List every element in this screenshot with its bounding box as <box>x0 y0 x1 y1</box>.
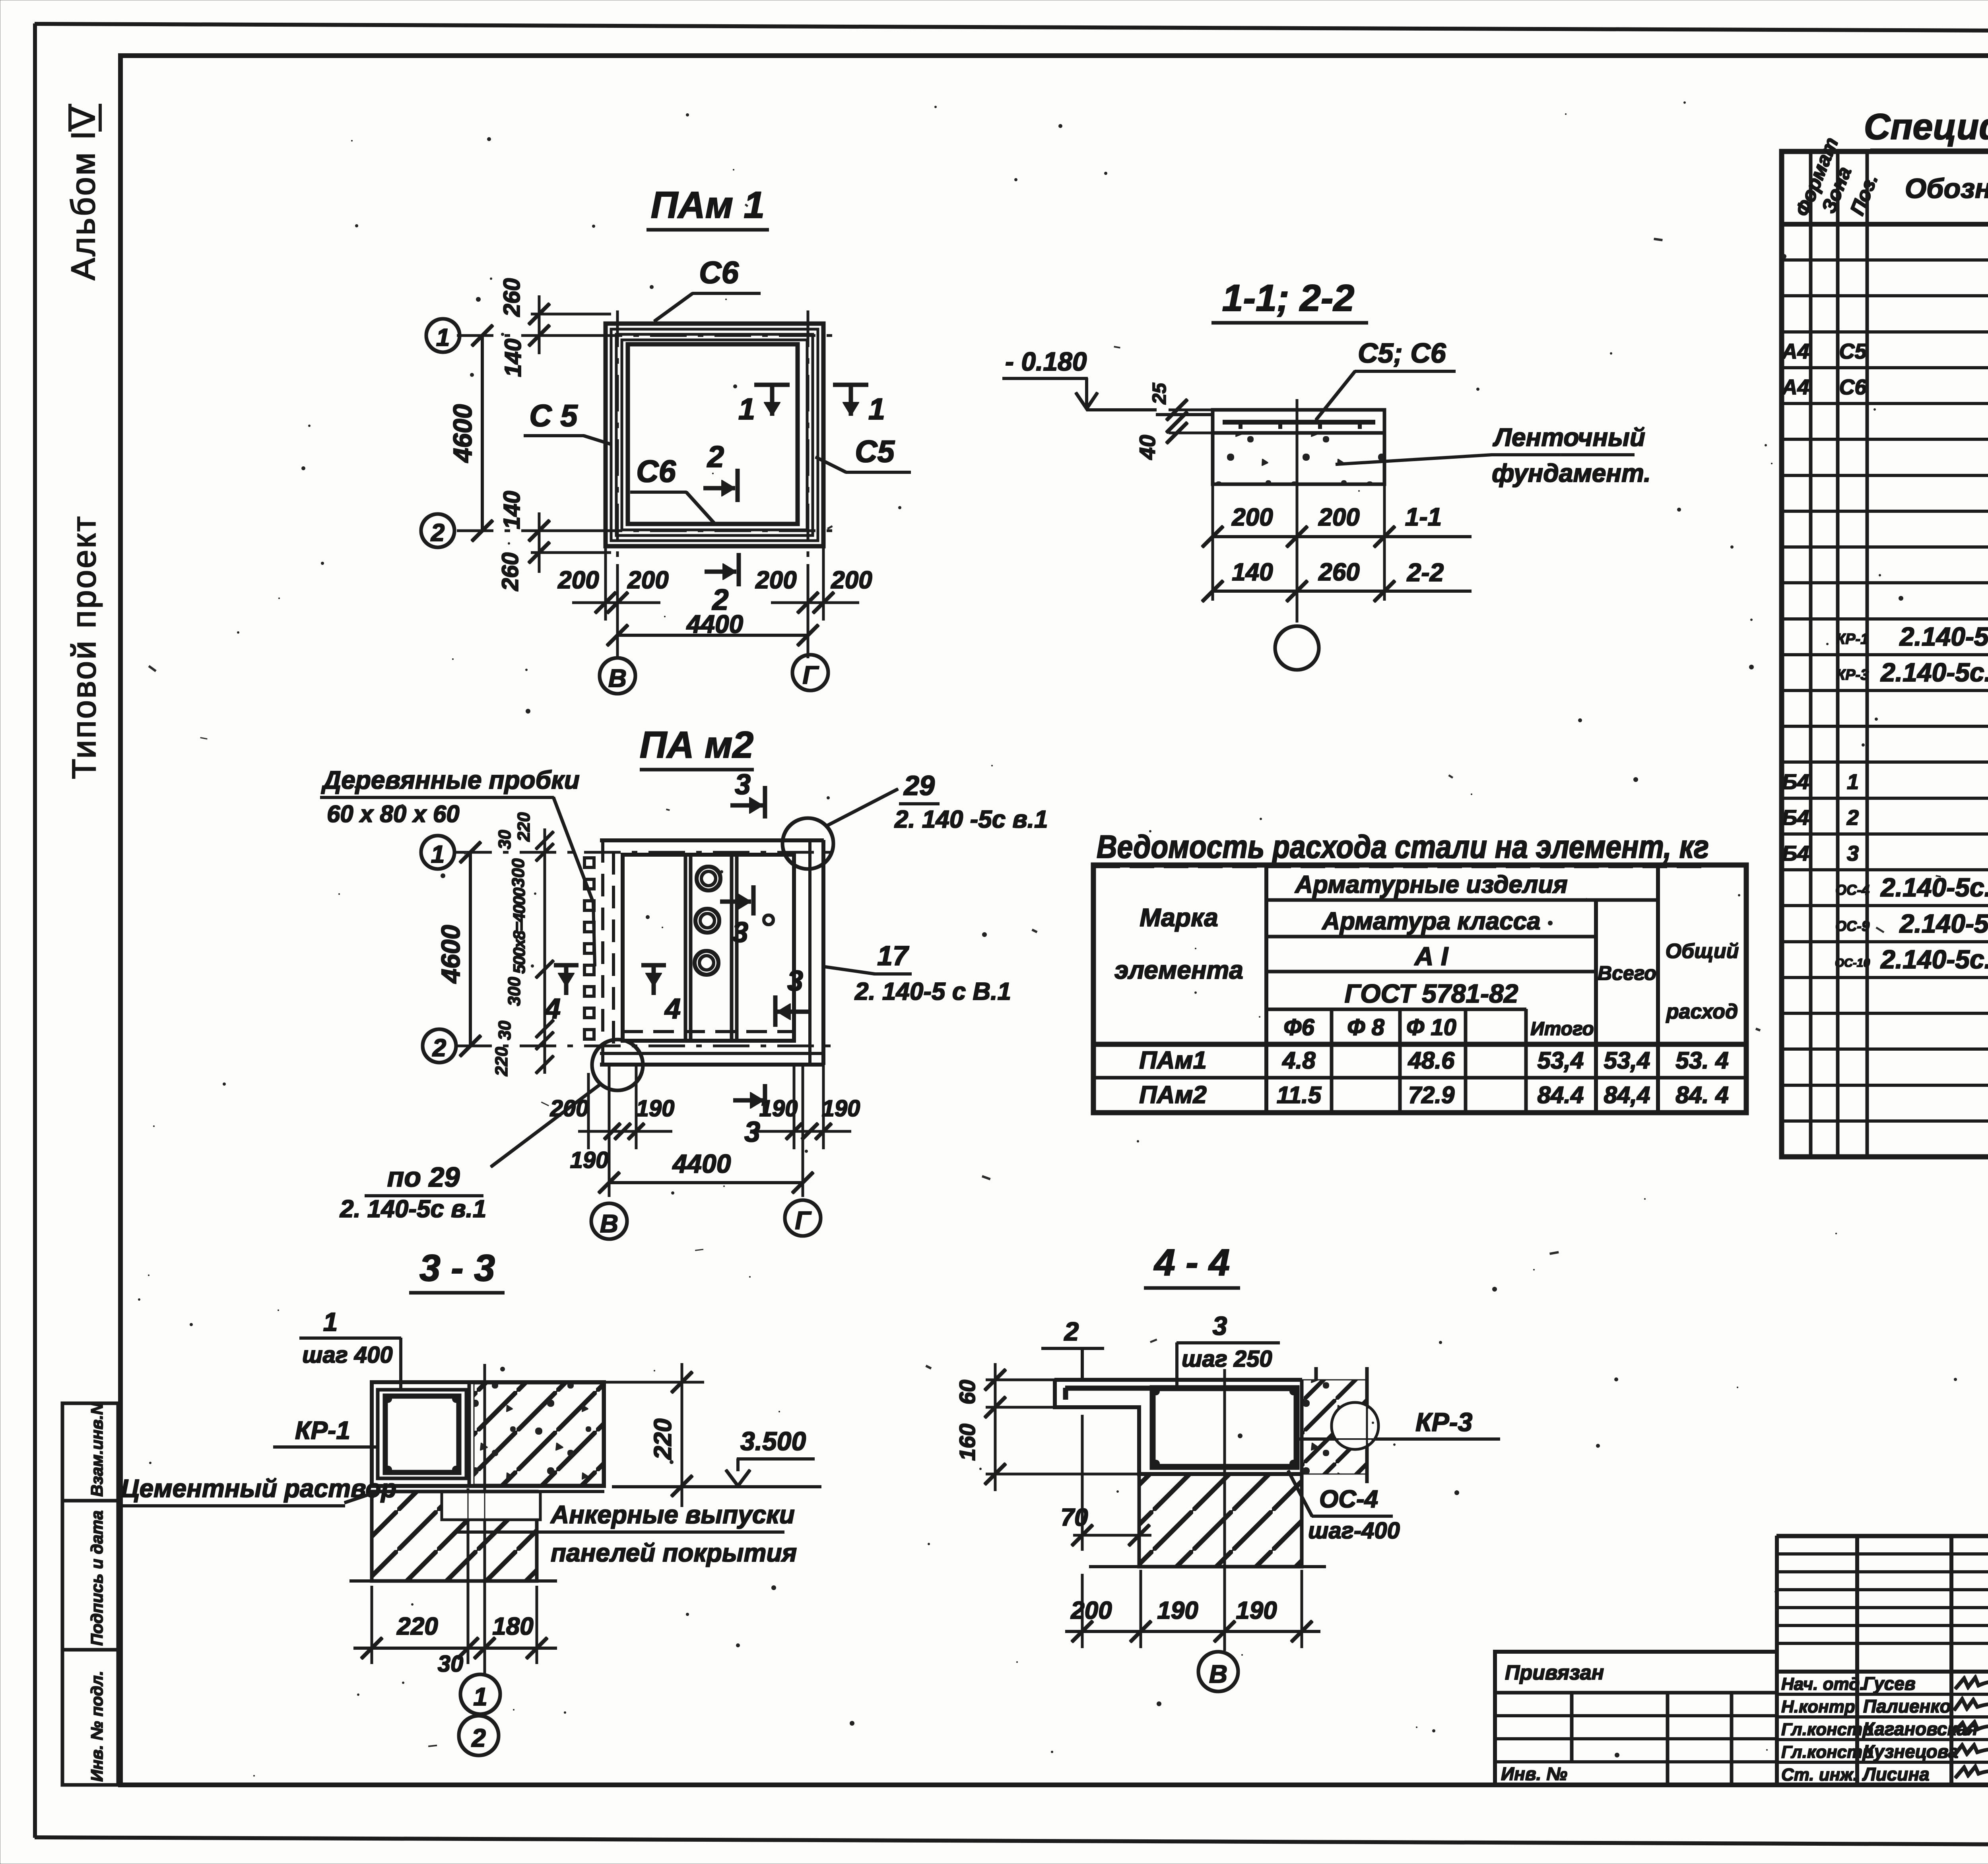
bottom-left stamp cells <box>62 1402 118 1785</box>
label C5 right with leader <box>816 434 911 472</box>
svg-text:расход: расход <box>1666 1000 1738 1023</box>
section mark 3 inner <box>720 886 753 948</box>
svg-text:Деревянные пробки: Деревянные пробки <box>321 766 580 794</box>
svg-text:Арматурные изделия: Арматурные изделия <box>1294 871 1567 898</box>
label C6 top with leader <box>654 255 760 321</box>
plan PAm2 axis lines <box>456 852 835 1046</box>
dims 200 200 bottom-right <box>755 546 872 658</box>
svg-text:11.5: 11.5 <box>1277 1082 1322 1108</box>
svg-text:Г: Г <box>802 661 819 689</box>
svg-text:300: 300 <box>509 858 528 888</box>
axis circle 1 <box>426 319 460 352</box>
svg-text:2. 140-5с в.1: 2. 140-5с в.1 <box>340 1195 486 1223</box>
svg-text:Спецификация к ПАм1 и ПАм2: Спецификация к ПАм1 и ПАм2 <box>1864 107 1988 147</box>
specification table header <box>1791 134 1988 219</box>
section 3-3 bottom dims <box>354 1489 557 1677</box>
svg-text:С5; С6: С5; С6 <box>1358 337 1446 369</box>
vertical label Album IV <box>64 104 102 280</box>
svg-text:В: В <box>600 1209 618 1238</box>
left dims 60 160 section 4-4 <box>955 1364 1139 1491</box>
svg-text:ПА м2: ПА м2 <box>640 724 753 766</box>
section mark 3 lower <box>775 965 808 1026</box>
label C5 left with leader <box>524 398 612 444</box>
axis circle 1 PAm2 <box>421 836 454 869</box>
svg-text:53. 4: 53. 4 <box>1675 1047 1728 1074</box>
svg-text:190: 190 <box>1236 1597 1277 1624</box>
svg-text:ОС-9: ОС-9 <box>1835 918 1870 934</box>
svg-text:Арматура класса: Арматура класса <box>1321 908 1540 935</box>
svg-text:1: 1 <box>1847 770 1859 794</box>
svg-text:140: 140 <box>500 339 526 377</box>
svg-text:Ф6: Ф6 <box>1283 1014 1314 1040</box>
svg-text:84.4: 84.4 <box>1538 1082 1584 1108</box>
svg-text:60 x 80 x 60: 60 x 80 x 60 <box>327 801 460 827</box>
svg-text:шаг 400: шаг 400 <box>302 1342 393 1368</box>
label C6 bottom with leader <box>631 454 716 525</box>
label 2 leader <box>1042 1317 1104 1379</box>
svg-text:140: 140 <box>1232 559 1273 586</box>
section mark 3 bottom <box>734 1084 765 1148</box>
svg-text:панелей покрытия: панелей покрытия <box>551 1538 797 1567</box>
svg-text:3: 3 <box>732 917 748 948</box>
vedomost table title <box>1096 829 1710 867</box>
PAm2 bottom dims right <box>757 1065 860 1149</box>
svg-text:30: 30 <box>495 1020 514 1040</box>
svg-text:4 - 4: 4 - 4 <box>1153 1241 1230 1284</box>
svg-text:2.140-5с.1-0050-01: 2.140-5с.1-0050-01 <box>1880 945 1988 974</box>
svg-text:220: 220 <box>514 812 534 842</box>
vertical label Tipovoy proekt <box>65 515 103 779</box>
svg-text:3: 3 <box>787 965 803 997</box>
svg-text:2: 2 <box>1064 1317 1079 1346</box>
svg-text:КР-3: КР-3 <box>1415 1407 1472 1437</box>
svg-text:КР-3: КР-3 <box>1836 667 1869 683</box>
level mark -0.180 <box>1003 347 1213 415</box>
axis circle V <box>600 658 635 694</box>
svg-text:220: 220 <box>492 1047 511 1077</box>
svg-text:53,4: 53,4 <box>1604 1047 1650 1074</box>
svg-text:Кузнецова: Кузнецова <box>1863 1741 1958 1762</box>
svg-text:200: 200 <box>557 566 599 594</box>
wall below section 4-4 <box>1089 1474 1326 1567</box>
plan PAm2 holes <box>695 867 773 975</box>
PAm2 bottom dims left <box>550 1065 675 1149</box>
leader po 29 bottom-left circle <box>340 1040 643 1223</box>
dim 4400 bottom <box>607 610 818 646</box>
svg-text:Всего: Всего <box>1598 962 1656 984</box>
section mark 2-2 bottom <box>705 553 739 616</box>
svg-text:Альбом IV: Альбом IV <box>64 105 102 280</box>
svg-text:4: 4 <box>544 993 561 1025</box>
svg-text:шаг-400: шаг-400 <box>1308 1518 1400 1544</box>
svg-text:260: 260 <box>497 553 523 592</box>
label KR-1 <box>274 1416 378 1447</box>
dim 140/260 bottom-left <box>497 491 611 592</box>
axis circle 2 <box>421 514 454 547</box>
svg-text:3 - 3: 3 - 3 <box>419 1247 495 1289</box>
svg-text:1-1: 1-1 <box>1405 502 1442 531</box>
label OS-4 shag-400 <box>1288 1471 1400 1544</box>
svg-text:Взам.инв.N: Взам.инв.N <box>87 1402 106 1497</box>
svg-text:Инв. №: Инв. № <box>1501 1763 1567 1784</box>
label 1 shag 400 <box>300 1307 401 1388</box>
plan PAm1 title <box>647 184 769 230</box>
svg-text:220: 220 <box>649 1418 677 1460</box>
svg-text:элемента: элемента <box>1114 956 1243 984</box>
svg-text:Ведомость расхода стали на эле: Ведомость расхода стали на элемент, кг <box>1097 829 1709 865</box>
svg-text:200: 200 <box>1318 504 1359 531</box>
level mark 3.500 <box>612 1426 821 1487</box>
section mark 3 top <box>731 769 765 818</box>
label C5;C6 with leader <box>1316 337 1455 420</box>
svg-text:2.140-5с.1-0050: 2.140-5с.1-0050 <box>1899 909 1988 938</box>
svg-text:200: 200 <box>550 1096 589 1121</box>
section 4-4 beam outline <box>1055 1380 1302 1474</box>
svg-text:2: 2 <box>471 1724 486 1752</box>
axis circle 2 PAm2 <box>423 1029 456 1063</box>
hatched block with void section 4-4 <box>1302 1367 1378 1483</box>
svg-text:Гл.констр: Гл.констр <box>1781 1742 1873 1762</box>
section mark 4 right <box>642 965 681 1025</box>
svg-text:Кагановская: Кагановская <box>1863 1719 1978 1739</box>
svg-text:260: 260 <box>499 278 525 317</box>
svg-text:шаг 250: шаг 250 <box>1182 1346 1272 1372</box>
svg-text:72.9: 72.9 <box>1408 1082 1455 1108</box>
svg-text:1: 1 <box>323 1307 338 1336</box>
svg-text:70: 70 <box>1061 1504 1088 1531</box>
plan PAm1 axis lines <box>457 311 837 564</box>
svg-text:190: 190 <box>759 1096 798 1121</box>
svg-text:220: 220 <box>396 1613 438 1640</box>
svg-text:ОС-4: ОС-4 <box>1835 882 1870 898</box>
svg-text:Б4: Б4 <box>1782 806 1809 830</box>
svg-text:30: 30 <box>438 1651 464 1677</box>
dim 4400 PAm2 <box>570 1065 813 1197</box>
svg-text:40: 40 <box>1135 435 1160 460</box>
svg-text:200: 200 <box>1231 504 1273 531</box>
section 1-1 2-2 title <box>1212 277 1368 323</box>
foundation wall section 3-3 <box>350 1492 557 1581</box>
plan PAm2 title <box>640 724 753 770</box>
svg-text:1: 1 <box>738 392 755 426</box>
svg-text:200: 200 <box>831 566 872 594</box>
svg-text:3: 3 <box>1847 842 1859 865</box>
section mark 4 left <box>544 965 578 1025</box>
cement mortar joint and label <box>118 1474 604 1506</box>
svg-text:ОС-4: ОС-4 <box>1319 1486 1378 1513</box>
plan PAm2 walls <box>600 840 823 1065</box>
rebar frame KR-3 in section 4-4 <box>1066 1387 1298 1468</box>
svg-text:С5: С5 <box>855 434 895 469</box>
label ankernye vypuski <box>456 1500 797 1567</box>
svg-text:84,4: 84,4 <box>1604 1082 1650 1108</box>
svg-text:Подпись и дата: Подпись и дата <box>87 1511 106 1646</box>
svg-text:260: 260 <box>1318 559 1359 586</box>
section mark 2-2 top <box>704 440 738 502</box>
svg-text:Типовой проект: Типовой проект <box>65 515 103 779</box>
svg-text:48.6: 48.6 <box>1408 1047 1455 1074</box>
specification rows content <box>1781 226 1988 1117</box>
svg-text:Палиенко: Палиенко <box>1863 1696 1951 1717</box>
plan PAm2 inner panel lines <box>685 855 737 1041</box>
svg-text:200: 200 <box>627 566 668 594</box>
svg-text:Марка: Марка <box>1140 903 1218 932</box>
axis circle V PAm2 <box>591 1203 627 1239</box>
svg-text:Анкерные выпуски: Анкерные выпуски <box>550 1500 795 1529</box>
svg-text:ПАм2: ПАм2 <box>1139 1081 1207 1109</box>
leader 29 detail circle <box>782 770 1048 869</box>
svg-text:1: 1 <box>431 841 445 868</box>
svg-text:1: 1 <box>868 392 885 426</box>
svg-text:29: 29 <box>903 770 935 801</box>
svg-text:2.140-5с.1-0010-02: 2.140-5с.1-0010-02 <box>1880 658 1988 687</box>
svg-text:2. 140 -5с в.1: 2. 140 -5с в.1 <box>894 806 1048 833</box>
svg-text:Обозначение: Обозначение <box>1905 173 1988 204</box>
svg-text:140: 140 <box>499 491 525 530</box>
left dim stack PAm2 <box>492 812 553 1077</box>
svg-text:КР-1: КР-1 <box>1836 631 1869 648</box>
svg-text:190: 190 <box>1157 1597 1198 1624</box>
svg-text:84. 4: 84. 4 <box>1675 1082 1728 1108</box>
svg-text:30: 30 <box>495 830 514 849</box>
svg-text:С6: С6 <box>699 255 739 290</box>
svg-text:200: 200 <box>755 566 796 594</box>
svg-text:А I: А I <box>1414 941 1449 971</box>
svg-text:2.140-5с.1-0030-03: 2.140-5с.1-0030-03 <box>1880 873 1988 902</box>
svg-text:В: В <box>1209 1660 1227 1688</box>
svg-text:ОС-10: ОС-10 <box>1835 956 1870 970</box>
label derevyannye probki <box>320 766 595 966</box>
section foundation block <box>1213 433 1384 484</box>
label KR-3 <box>1295 1407 1500 1439</box>
label lentochny fundament <box>1336 423 1651 487</box>
concrete hatch right part of beam <box>469 1382 602 1486</box>
svg-text:В: В <box>608 664 627 692</box>
svg-text:4: 4 <box>664 993 681 1025</box>
svg-text:Ф 10: Ф 10 <box>1406 1014 1456 1040</box>
dim 4600 vertical PAm2 <box>436 842 481 1056</box>
svg-text:Гусев: Гусев <box>1863 1673 1916 1694</box>
svg-text:2: 2 <box>1846 806 1859 830</box>
dim 4600 vertical <box>448 325 493 541</box>
section mark 1-1 right <box>833 385 885 426</box>
svg-text:1: 1 <box>473 1682 487 1711</box>
svg-text:3.500: 3.500 <box>740 1426 806 1456</box>
svg-text:С6: С6 <box>636 454 676 489</box>
svg-text:500x8=4000: 500x8=4000 <box>510 888 528 974</box>
svg-text:53,4: 53,4 <box>1538 1047 1584 1074</box>
svg-text:Общий: Общий <box>1666 940 1739 963</box>
svg-text:4400: 4400 <box>672 1149 731 1178</box>
svg-text:КР-1: КР-1 <box>295 1416 350 1445</box>
svg-text:Лисина: Лисина <box>1862 1764 1930 1784</box>
svg-text:Б4: Б4 <box>1782 842 1809 865</box>
section dims 1-1 and 2-2 <box>1202 433 1471 601</box>
svg-text:200: 200 <box>1070 1597 1112 1624</box>
section 3-3 beam outline <box>372 1382 604 1486</box>
svg-text:2: 2 <box>431 519 445 547</box>
svg-text:Ленточный: Ленточный <box>1493 423 1645 452</box>
centerline section 3-3 <box>484 1364 486 1596</box>
section 4-4 title <box>1144 1241 1240 1288</box>
svg-text:- 0.180: - 0.180 <box>1005 347 1087 376</box>
dim 260/140 top-left <box>499 278 611 377</box>
svg-text:С 5: С 5 <box>529 398 578 433</box>
svg-text:2: 2 <box>432 1034 446 1062</box>
svg-text:190: 190 <box>636 1096 675 1121</box>
svg-text:по 29: по 29 <box>387 1162 460 1193</box>
svg-text:Итого: Итого <box>1530 1018 1594 1040</box>
section centerline and base circle <box>1275 400 1319 670</box>
svg-text:2.140-5с.1-0010: 2.140-5с.1-0010 <box>1899 622 1988 651</box>
svg-text:300: 300 <box>505 977 524 1006</box>
svg-text:190: 190 <box>822 1096 860 1121</box>
section slab with mesh <box>1213 410 1384 433</box>
axis circle G <box>792 655 828 691</box>
svg-text:2. 140-5 с В.1: 2. 140-5 с В.1 <box>854 978 1011 1005</box>
specification table grid <box>1782 151 1988 1157</box>
svg-text:4.8: 4.8 <box>1282 1047 1316 1074</box>
wooden plugs along left wall <box>584 858 594 1039</box>
plan PAm1 walls <box>606 324 823 546</box>
svg-text:17: 17 <box>877 940 909 971</box>
privyazan box <box>1495 1652 1777 1785</box>
dims 200 200 bottom-left <box>557 546 668 658</box>
section 4-4 bottom dims <box>1066 1570 1320 1648</box>
dim 25 and 40 left of section <box>1135 382 1213 460</box>
svg-text:3: 3 <box>1213 1311 1227 1340</box>
svg-text:А4: А4 <box>1781 339 1809 363</box>
svg-text:3: 3 <box>735 769 751 801</box>
svg-text:4400: 4400 <box>686 610 743 638</box>
svg-text:25: 25 <box>1149 382 1170 405</box>
svg-text:2: 2 <box>707 440 724 474</box>
svg-text:60: 60 <box>955 1380 980 1404</box>
svg-text:4600: 4600 <box>448 404 477 463</box>
svg-text:190: 190 <box>570 1147 609 1173</box>
svg-text:С6: С6 <box>1839 375 1867 399</box>
svg-text:160: 160 <box>955 1424 980 1461</box>
svg-text:Гл.констр: Гл.констр <box>1781 1720 1873 1739</box>
svg-text:Инв. № подл.: Инв. № подл. <box>87 1671 106 1782</box>
section 3-3 title <box>410 1247 504 1293</box>
svg-text:ГОСТ 5781-82: ГОСТ 5781-82 <box>1345 979 1518 1008</box>
svg-text:Б4: Б4 <box>1782 770 1809 794</box>
vedomost table grid <box>1093 865 1746 1113</box>
dim 220 right of section 3-3 <box>604 1364 704 1507</box>
svg-text:Привязан: Привязан <box>1505 1661 1604 1684</box>
section mark 1-1 left <box>738 385 789 426</box>
svg-text:4600: 4600 <box>436 925 465 984</box>
vedomost table text <box>1114 871 1739 1109</box>
specification table title <box>1864 107 1988 150</box>
label 3 shag 250 <box>1177 1311 1279 1387</box>
svg-text:А4: А4 <box>1781 375 1809 399</box>
svg-text:Ст. инж.: Ст. инж. <box>1781 1765 1858 1784</box>
svg-text:Н.контр.: Н.контр. <box>1781 1697 1860 1717</box>
svg-text:1: 1 <box>436 324 450 351</box>
svg-text:ПАм1: ПАм1 <box>1139 1047 1207 1074</box>
leader 17 <box>825 940 1011 1005</box>
svg-text:1-1; 2-2: 1-1; 2-2 <box>1222 277 1355 319</box>
svg-text:фундамент.: фундамент. <box>1492 459 1651 487</box>
centerline section 4-4 <box>1224 1369 1226 1651</box>
svg-text:Г: Г <box>795 1206 812 1235</box>
svg-text:Нач. отд.: Нач. отд. <box>1781 1674 1865 1694</box>
axis circles 1 and 2 below section 3-3 <box>459 1596 500 1755</box>
title block signature table <box>1777 1536 1988 1785</box>
svg-text:180: 180 <box>492 1613 533 1640</box>
axis circle G PAm2 <box>785 1200 821 1236</box>
svg-text:С5: С5 <box>1839 339 1867 363</box>
axis circle V section 4-4 <box>1198 1652 1238 1691</box>
dim 70 section 4-4 <box>1061 1415 1151 1550</box>
svg-text:2-2: 2-2 <box>1407 558 1444 587</box>
svg-text:Ф 8: Ф 8 <box>1347 1014 1384 1040</box>
KR-1 frame in section 3-3 <box>378 1390 466 1478</box>
